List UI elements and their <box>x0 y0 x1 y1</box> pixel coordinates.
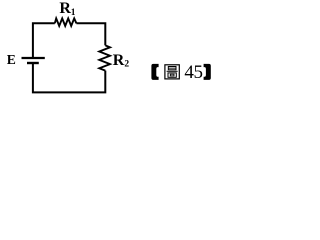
svg-text:2: 2 <box>124 59 129 69</box>
svg-text:45: 45 <box>184 62 202 83</box>
wire: right lower segment + bottom wire + left lower segment up to battery <box>33 64 105 92</box>
svg-text:E: E <box>7 52 16 67</box>
svg-text:1: 1 <box>71 8 76 18</box>
resistor R1 <box>55 18 77 26</box>
svg-text:R: R <box>113 52 125 69</box>
right lenticular bracket of caption <box>204 64 211 80</box>
wire: top wire right of R1 + top-right corner down to R2 <box>76 23 105 45</box>
left lenticular bracket of caption <box>151 64 158 80</box>
battery E short plate (-) <box>27 62 39 64</box>
resistor R2 <box>99 45 110 70</box>
wire: left upper segment + top-left corner + top wire to R1 <box>33 23 55 57</box>
battery E long plate (+) <box>22 57 45 59</box>
svg-text:R: R <box>59 0 71 17</box>
CJK character 圖 (drawn) <box>165 65 179 79</box>
